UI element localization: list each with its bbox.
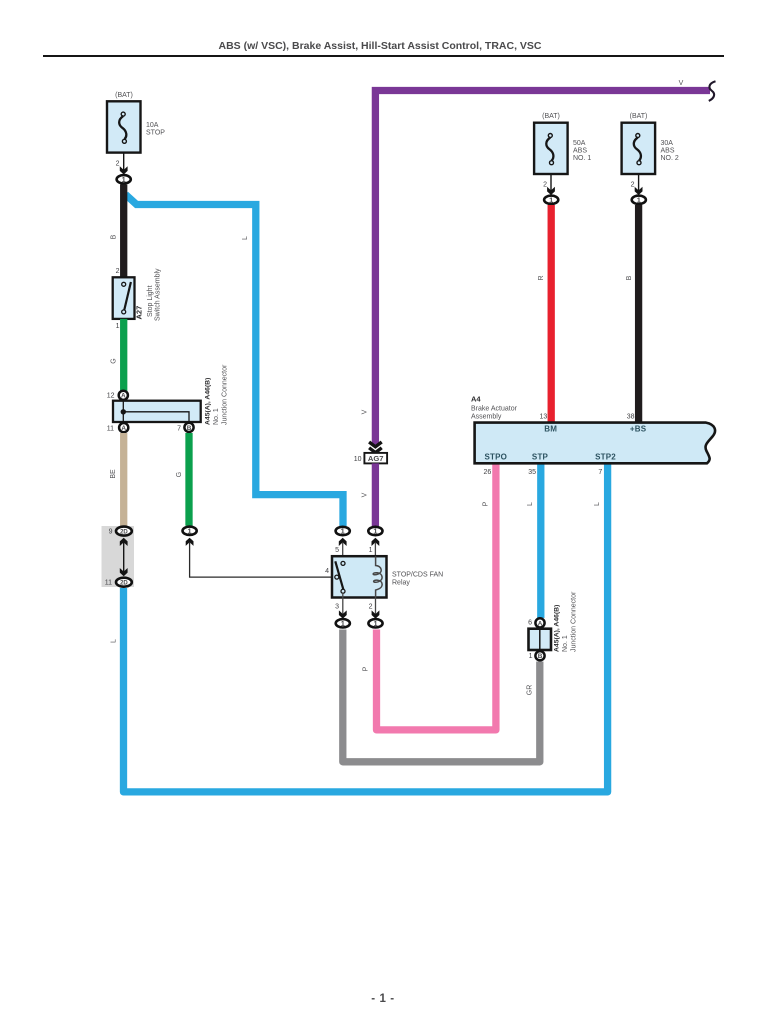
wire: black B from fuse to stop light switch bbox=[120, 185, 127, 278]
brake actuator assembly A4 box bbox=[475, 423, 715, 464]
svg-text:NO. 2: NO. 2 bbox=[661, 155, 679, 162]
svg-text:STP: STP bbox=[532, 452, 549, 461]
svg-text:Stop Light: Stop Light bbox=[147, 285, 154, 317]
svg-text:11: 11 bbox=[105, 580, 112, 587]
double arrow into AG7 bbox=[369, 442, 382, 453]
title underline bbox=[43, 55, 724, 57]
svg-text:L: L bbox=[594, 502, 601, 506]
svg-text:10: 10 bbox=[354, 456, 362, 463]
connector oval 1 (30A fuse) bbox=[632, 196, 646, 205]
junction connector No.1 labels bbox=[205, 364, 229, 425]
svg-text:ABS: ABS bbox=[661, 148, 675, 155]
svg-text:1: 1 bbox=[116, 323, 120, 330]
junction connector No.1 A45(A) A46(B) lower bbox=[528, 618, 551, 660]
svg-text:BE: BE bbox=[110, 469, 117, 479]
svg-text:V: V bbox=[362, 409, 369, 414]
svg-text:V: V bbox=[362, 492, 369, 497]
svg-text:L: L bbox=[111, 639, 118, 643]
svg-text:- 1 -: - 1 - bbox=[371, 993, 394, 1005]
svg-text:Brake Actuator: Brake Actuator bbox=[471, 406, 518, 413]
STOP/CDS FAN relay bbox=[325, 543, 386, 619]
svg-text:ABS: ABS bbox=[573, 148, 587, 155]
fuse 30A ABS NO.2 bbox=[622, 113, 679, 174]
wire: black B fuse to brake actuator bbox=[635, 205, 642, 422]
fuse 50A ABS NO.1 bbox=[534, 113, 591, 174]
svg-text:STP2: STP2 bbox=[595, 452, 616, 461]
wire: green G switch to junction connector bbox=[120, 319, 127, 391]
arrow relay pin1 bbox=[372, 538, 380, 546]
svg-text:Assembly: Assembly bbox=[471, 414, 502, 421]
purple V feed wire bbox=[375, 91, 710, 446]
stop light switch A27 bbox=[113, 268, 135, 330]
svg-text:STOP/CDS FAN: STOP/CDS FAN bbox=[392, 572, 443, 579]
fuse 50A pin 2 lead bbox=[543, 174, 555, 195]
svg-text:7: 7 bbox=[598, 469, 602, 476]
svg-text:6: 6 bbox=[528, 620, 532, 627]
svg-text:35: 35 bbox=[528, 469, 536, 476]
svg-text:G: G bbox=[111, 358, 118, 363]
wire: green G junction B to relay branch connector bbox=[185, 433, 192, 526]
svg-text:(BAT): (BAT) bbox=[542, 113, 560, 120]
svg-text:13: 13 bbox=[540, 414, 548, 421]
svg-text:30A: 30A bbox=[661, 140, 674, 147]
svg-text:L: L bbox=[242, 236, 249, 240]
connector oval 1 (below relay pin 2) bbox=[368, 619, 382, 628]
svg-text:L: L bbox=[527, 502, 534, 506]
svg-text:P: P bbox=[483, 501, 490, 506]
arrow into green branch oval bbox=[186, 538, 194, 546]
svg-text:(BAT): (BAT) bbox=[630, 113, 648, 120]
svg-text:1: 1 bbox=[529, 653, 533, 660]
svg-text:+BS: +BS bbox=[630, 425, 647, 434]
wire: cyan L bottom run to STP2 bbox=[124, 464, 608, 792]
wire: beige BE junction to 2D connector bbox=[120, 433, 127, 527]
shielded 2D pass-through box bbox=[102, 526, 135, 587]
svg-text:GR: GR bbox=[527, 685, 534, 696]
svg-text:BM: BM bbox=[544, 425, 557, 434]
title: ABS (w/ VSC), Brake Assist, Hill-Start Assist Control, TRAC, VSC bbox=[218, 40, 541, 52]
relay labels bbox=[392, 572, 443, 587]
svg-text:2: 2 bbox=[369, 604, 373, 611]
fuse 30A pin 2 lead bbox=[631, 174, 643, 195]
wire: gray GR relay to junction connector bbox=[343, 630, 540, 762]
svg-text:A45(A), A46(B): A45(A), A46(B) bbox=[554, 605, 561, 652]
svg-text:26: 26 bbox=[484, 469, 492, 476]
wire: pink P relay to STPO bbox=[377, 464, 496, 730]
svg-text:A27: A27 bbox=[135, 306, 144, 320]
svg-text:STPO: STPO bbox=[485, 452, 508, 461]
thin wire to relay pin 4 bbox=[190, 542, 332, 577]
svg-text:7: 7 bbox=[177, 425, 181, 432]
arrow relay pin5 bbox=[339, 538, 347, 546]
svg-text:12: 12 bbox=[107, 393, 115, 400]
connector oval 1 (relay pin 5 side) bbox=[336, 527, 350, 536]
svg-text:B: B bbox=[111, 234, 118, 239]
svg-text:1: 1 bbox=[369, 547, 373, 554]
svg-text:P: P bbox=[363, 666, 370, 671]
svg-text:11: 11 bbox=[107, 426, 114, 433]
wire: red R fuse to brake actuator bbox=[548, 205, 555, 422]
fuse 10A pin 2 lead bbox=[116, 153, 128, 175]
connector oval 1 (below relay pin 3) bbox=[336, 619, 350, 628]
svg-text:NO. 1: NO. 1 bbox=[573, 155, 591, 162]
svg-text:3: 3 bbox=[335, 604, 339, 611]
svg-text:B: B bbox=[626, 275, 633, 280]
junction connector No.1 lower labels bbox=[554, 591, 578, 652]
wire: cyan L STP to junction connector bbox=[537, 464, 544, 618]
svg-text:Junction Connector: Junction Connector bbox=[571, 591, 578, 652]
svg-text:AG7: AG7 bbox=[368, 454, 384, 463]
brake actuator A4 labels bbox=[471, 395, 518, 421]
svg-text:No. 1: No. 1 bbox=[562, 635, 569, 652]
connector oval 1 (50A fuse) bbox=[544, 196, 558, 205]
junction connector No.1 A45(A) A46(B) upper bbox=[107, 391, 201, 433]
svg-text:Relay: Relay bbox=[392, 580, 410, 587]
svg-text:2: 2 bbox=[116, 268, 120, 275]
connector oval 1 (green branch) bbox=[183, 527, 197, 536]
A27 labels bbox=[135, 268, 162, 321]
svg-text:A45(A), A46(B): A45(A), A46(B) bbox=[205, 378, 212, 425]
svg-text:A4: A4 bbox=[471, 395, 481, 404]
svg-text:38: 38 bbox=[627, 414, 635, 421]
svg-text:R: R bbox=[538, 275, 545, 280]
svg-text:4: 4 bbox=[325, 568, 329, 575]
A4 bottom pin numbers bbox=[484, 469, 603, 476]
svg-text:5: 5 bbox=[335, 547, 339, 554]
continuation squiggle at purple wire end bbox=[709, 81, 716, 101]
wire: purple V below AG7 bbox=[372, 463, 379, 526]
svg-text:2: 2 bbox=[116, 161, 120, 168]
svg-text:Junction Connector: Junction Connector bbox=[222, 364, 229, 425]
A4 port labels bbox=[485, 425, 647, 462]
svg-text:ABS (w/ VSC), Brake Assist, Hi: ABS (w/ VSC), Brake Assist, Hill-Start A… bbox=[218, 40, 541, 52]
svg-text:(BAT): (BAT) bbox=[115, 92, 133, 99]
connector oval 1 (relay pin 1 side) bbox=[368, 527, 382, 536]
svg-text:50A: 50A bbox=[573, 140, 586, 147]
wire: cyan L branch from stop-light feed to relay pin 5 bbox=[126, 195, 344, 527]
connector oval 1 (10A STOP) bbox=[117, 175, 131, 184]
svg-text:Switch Assembly: Switch Assembly bbox=[155, 268, 162, 321]
svg-text:No. 1: No. 1 bbox=[213, 408, 220, 425]
svg-text:V: V bbox=[679, 80, 684, 87]
connector AG7 bbox=[354, 453, 387, 464]
svg-text:G: G bbox=[176, 472, 183, 477]
svg-text:2: 2 bbox=[631, 182, 635, 189]
svg-text:9: 9 bbox=[109, 529, 113, 536]
svg-text:STOP: STOP bbox=[146, 130, 165, 137]
fuse 10A STOP bbox=[107, 92, 165, 153]
svg-text:10A: 10A bbox=[146, 122, 159, 129]
svg-text:2: 2 bbox=[543, 182, 547, 189]
